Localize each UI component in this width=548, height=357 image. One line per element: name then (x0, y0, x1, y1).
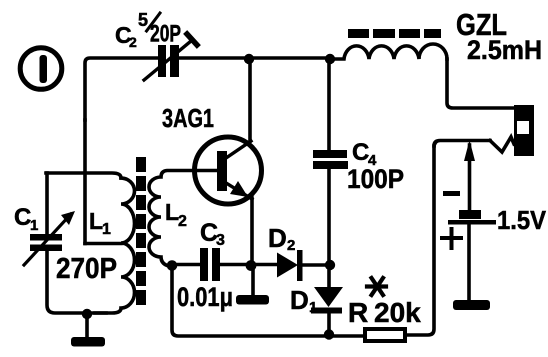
diode D1 (311, 287, 343, 314)
label C2 (115, 22, 137, 50)
label D1 (290, 285, 317, 316)
transistor collector lead (226, 141, 251, 158)
node emitter junction (246, 260, 257, 271)
transistor emitter arrowhead (230, 181, 248, 197)
diode D2 (277, 250, 303, 281)
svg-text:L: L (165, 199, 179, 225)
svg-text:1: 1 (30, 217, 38, 234)
figure marker circle 1 (20, 48, 62, 90)
capacitor C1 plates (30, 234, 62, 251)
label D2 (268, 223, 295, 254)
svg-text:0.01μ: 0.01μ (177, 282, 233, 312)
battery positive plate (448, 220, 496, 225)
label C4 (352, 139, 377, 169)
transistor Q1 circle (195, 137, 262, 204)
svg-text:100P: 100P (347, 164, 404, 194)
svg-text:3: 3 (216, 232, 225, 249)
transistor emitter lead (226, 183, 252, 199)
svg-text:2: 2 (129, 34, 137, 50)
wire base drop to coil tap (83, 120, 87, 244)
wire C3 left (172, 263, 199, 267)
ground bar tank (71, 337, 105, 347)
wire GZL to earphone (447, 59, 514, 108)
svg-text:20P: 20P (150, 21, 181, 48)
earphone (514, 105, 534, 156)
wire bottom rail from C3 node (172, 265, 365, 336)
wire left branch upper (45, 173, 49, 233)
battery plus sign (442, 229, 461, 248)
inductor GZL core dashes (348, 29, 441, 38)
ground bar battery (453, 300, 490, 310)
capacitor C4 plates (313, 150, 348, 169)
node bottom rail junction (324, 329, 334, 339)
wire zigzag to earphone (490, 137, 514, 152)
node D2 junction (325, 260, 335, 270)
svg-text:1: 1 (102, 221, 111, 238)
svg-text:D: D (268, 223, 287, 253)
svg-text:2.5mH: 2.5mH (467, 35, 542, 65)
wire battery to ground (467, 224, 471, 301)
inductor GZL (330, 44, 447, 59)
wire left branch lower (47, 250, 87, 313)
svg-text:C: C (352, 139, 369, 166)
svg-text:2: 2 (287, 237, 295, 254)
transistor base bar (217, 151, 227, 191)
node C4 junction (325, 54, 335, 64)
slash of 5/20 (147, 13, 161, 31)
label 5/20P (138, 10, 181, 48)
node tank ground junction (82, 309, 92, 319)
ferrite core vertical dashes (136, 157, 146, 305)
svg-text:D: D (290, 285, 309, 315)
label L1 (89, 208, 111, 238)
svg-text:R: R (348, 297, 368, 328)
svg-text:1.5V: 1.5V (497, 205, 547, 235)
wire D2 cathode (302, 263, 330, 267)
tank top rail (46, 173, 121, 178)
inductor L2 and base wire (149, 171, 217, 266)
node collector junction (244, 54, 254, 64)
svg-text:5: 5 (138, 10, 148, 30)
label L2 (165, 199, 187, 230)
wire collector vertical (248, 59, 252, 141)
resistor R body (365, 329, 405, 341)
wire emitter vertical (250, 198, 254, 265)
battery negative plate (459, 210, 481, 219)
ground stub emitter (251, 265, 255, 295)
svg-text:270P: 270P (56, 253, 117, 285)
label C3 (200, 219, 225, 249)
battery minus sign (443, 191, 460, 196)
svg-text:3AG1: 3AG1 (162, 103, 214, 133)
tank bottom rail (87, 311, 106, 315)
wire D2 anode (257, 263, 277, 267)
wire top rail middle (179, 56, 330, 60)
ground stub tank (85, 314, 89, 338)
label C1 (14, 204, 38, 234)
wire C4 vertical upper (327, 59, 331, 150)
svg-text:2: 2 (178, 213, 187, 230)
wire bottom rail right (405, 146, 434, 335)
svg-text:C: C (14, 204, 31, 231)
wire battery top rail (434, 141, 490, 147)
capacitor C2 arrow (144, 34, 197, 80)
svg-text:L: L (89, 208, 103, 234)
svg-text:20k: 20k (374, 297, 421, 328)
asterisk (367, 278, 386, 295)
wire top rail left (85, 58, 158, 120)
wire C4 vertical lower (327, 169, 331, 265)
capacitor C2 plates (158, 45, 179, 77)
capacitor C1 arrow (24, 211, 75, 265)
svg-text:1: 1 (309, 299, 317, 316)
wire C3 right (219, 263, 253, 267)
node C3 left junction (167, 260, 178, 271)
battery arrowhead (464, 140, 475, 161)
battery arrow lead (468, 145, 472, 210)
inductor L1 (95, 178, 135, 313)
capacitor C3 plates (200, 248, 220, 281)
ground bar emitter (236, 295, 269, 305)
wire L1 tap (85, 242, 121, 246)
wire D1 (327, 265, 331, 334)
